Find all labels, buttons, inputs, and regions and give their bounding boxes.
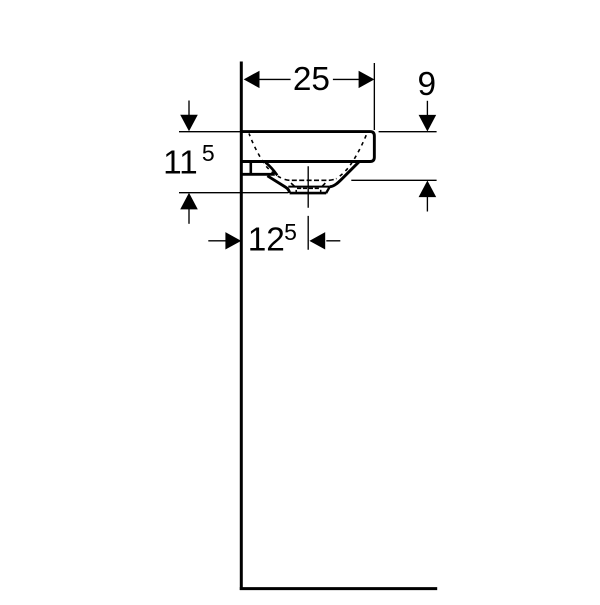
svg-text:11: 11 xyxy=(163,145,198,182)
svg-text:12: 12 xyxy=(248,221,285,258)
svg-text:5: 5 xyxy=(284,219,297,245)
svg-text:9: 9 xyxy=(418,66,437,103)
svg-text:5: 5 xyxy=(202,140,215,166)
svg-text:25: 25 xyxy=(293,61,330,98)
